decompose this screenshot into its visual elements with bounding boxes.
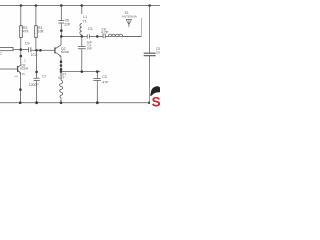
svg-text:10K: 10K [38, 30, 45, 34]
capacitor C8 top lead [60, 6, 62, 21]
wire collector tank rail [61, 35, 141, 37]
node C2 chain dot [35, 71, 38, 74]
node Q1 emitter dot [19, 88, 22, 91]
node L1 bottom junction [81, 35, 84, 38]
capacitor C5 plates [87, 34, 89, 38]
node bypass ground junction [96, 101, 99, 104]
wire mic node to C1 [21, 49, 29, 51]
capacitor C4 plates [78, 47, 86, 49]
svg-text:C3: C3 [102, 75, 106, 79]
inductor L3 emitter coil [60, 72, 63, 103]
node emitter bypass corner [96, 70, 99, 73]
node emitter coil ground junction [60, 101, 63, 104]
capacitor C2 plates [34, 78, 40, 80]
resistor R4 body [35, 26, 38, 38]
node top rail junction R1 [20, 4, 23, 7]
node top rail junction C9 [148, 4, 151, 7]
wire emitter feedback rail [61, 71, 100, 73]
wire C8 bottom lead [60, 23, 62, 36]
svg-text:IC: IC [0, 52, 2, 56]
svg-text:C: C [24, 58, 26, 62]
node R2 junction on base wire [35, 49, 38, 52]
node C5 output junction [96, 35, 99, 38]
logo watermark background [150, 87, 160, 109]
antenna E1 symbol [126, 20, 131, 28]
svg-text:C7: C7 [42, 74, 46, 78]
capacitor C8 plates [58, 21, 64, 23]
svg-text:1C2: 1C2 [31, 53, 37, 57]
resistor R3 body [20, 26, 23, 38]
wire antenna riser [140, 18, 142, 36]
svg-text:S: S [152, 94, 160, 109]
svg-text:ANTENNA: ANTENNA [122, 15, 137, 19]
svg-text:Y1: Y1 [83, 19, 87, 23]
wire R2 bottom lead [35, 38, 37, 51]
node top rail junction R2 [35, 4, 38, 7]
inductor L2 coil [108, 34, 122, 36]
svg-text:4.7T: 4.7T [58, 76, 65, 80]
node collector feed dot [20, 55, 23, 58]
transistor Q1 [17, 66, 19, 72]
node C2 ground junction [35, 101, 38, 104]
node C9 ground junction [148, 101, 151, 104]
capacitor C3 plates [93, 78, 101, 80]
wire L2 to antenna riser [123, 35, 142, 37]
node second junction on base wire [39, 49, 42, 52]
inductor L1 coil [80, 24, 82, 37]
node mic junction [20, 48, 23, 51]
capacitor C6 plates [103, 34, 105, 39]
wire Q2 emitter down [60, 56, 62, 71]
wire Q1 emitter down [20, 73, 22, 103]
wire bypass cap to ground [96, 80, 98, 102]
svg-text:C5: C5 [88, 27, 92, 31]
inductor L1 top lead [81, 6, 83, 15]
capacitor C1 plates [29, 47, 31, 52]
wire C1 to base node [31, 49, 55, 51]
svg-text:BC548: BC548 [61, 50, 69, 54]
svg-text:2N: 2N [22, 72, 25, 76]
svg-text:1000P: 1000P [29, 83, 40, 87]
node C8 lead dot [60, 29, 63, 32]
svg-text:BC548: BC548 [20, 67, 28, 71]
svg-text:47P: 47P [102, 81, 109, 85]
node Q2 emitter bead dots [60, 60, 63, 63]
node emitter corner [60, 70, 63, 73]
node collector wire left [60, 35, 63, 38]
stray dash [15, 75, 19, 77]
wire R1 top lead [20, 6, 22, 26]
svg-text:22P: 22P [64, 22, 71, 26]
wire C2 to ground [36, 81, 38, 103]
node top rail junction C8 [60, 4, 63, 7]
wire ground bottom rail [0, 102, 150, 104]
microphone MIC input box [0, 47, 13, 50]
svg-text:47K: 47K [23, 30, 30, 34]
capacitor C9 top lead [149, 6, 151, 54]
wire C9 to ground [149, 56, 151, 103]
node top rail junction L1 [81, 4, 84, 7]
logo black swoosh [150, 86, 160, 96]
wire V+ top rail [0, 5, 160, 7]
svg-text:C9: C9 [25, 42, 29, 46]
wire bypass cap top lead [96, 72, 98, 79]
wire R2 top lead [35, 6, 37, 26]
node Q1 emitter ground junction [19, 101, 22, 104]
capacitor C9 plates [144, 53, 156, 56]
wire C4 bottom lead [81, 49, 83, 72]
wire R1 bottom lead [20, 38, 22, 50]
wire node down to Q1 collector [20, 50, 22, 65]
wire C2 chain from base node down [36, 50, 38, 78]
svg-text:1n: 1n [156, 51, 160, 55]
wire Q2 collector up [60, 36, 62, 45]
transistor Q2 [54, 47, 56, 53]
node C4 emitter junction [81, 70, 84, 73]
svg-text:4.7P: 4.7P [101, 30, 109, 34]
wire mic to node [13, 49, 21, 51]
capacitor C4 top lead [81, 36, 83, 46]
svg-text:20P: 20P [87, 47, 92, 51]
